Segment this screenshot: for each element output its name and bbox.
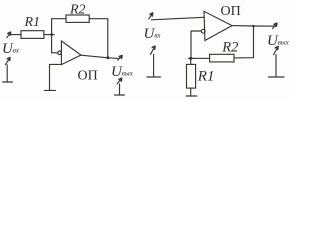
ground bar (left input) xyxy=(3,81,13,83)
output terminal arrow (left circuit, Uвых terminal) xyxy=(118,56,122,61)
junction output node (left circuit) xyxy=(106,56,109,59)
voltage arrow (right input reference) xyxy=(151,46,156,54)
wire input to R1 xyxy=(10,34,22,36)
ground bar (op-amp 1 non-inverting input) xyxy=(45,89,56,91)
op-amp U2 triangle xyxy=(204,11,232,40)
wire summing node to inverting input xyxy=(52,35,58,53)
wire feedback up to R2 xyxy=(52,19,66,35)
svg-text:Uвх: Uвх xyxy=(2,41,20,57)
resistor R1 (left circuit) xyxy=(21,31,44,39)
svg-text:R2: R2 xyxy=(221,40,238,56)
wire op-amp 2 output xyxy=(232,25,276,28)
ground bar (right circuit R1) xyxy=(186,95,197,97)
voltage arrow (right output reference) xyxy=(274,47,278,55)
svg-text:ОП: ОП xyxy=(221,4,241,19)
junction output tap (right circuit) xyxy=(252,25,254,27)
svg-text:Uвых: Uвых xyxy=(111,64,134,80)
ground stem (left input) xyxy=(6,65,8,82)
svg-text:R1: R1 xyxy=(197,69,215,85)
ground bar (left output) xyxy=(115,94,125,96)
wire R2 to output tap xyxy=(234,26,254,58)
wire R2 to output node xyxy=(89,19,108,58)
ground stem (left output) xyxy=(119,84,121,95)
wire op-amp output xyxy=(81,55,118,58)
wire non-inverting input to ground xyxy=(50,64,62,90)
output terminal arrow (right circuit, Uвых terminal) xyxy=(273,23,277,28)
voltage arrow (left input reference) xyxy=(5,58,10,65)
voltage arrow (left output reference) xyxy=(117,78,122,84)
ground stem (right output) xyxy=(275,55,277,77)
wire feedback node to R2 xyxy=(188,57,209,59)
input terminal arrow (left circuit, Uвх terminal) xyxy=(7,32,11,38)
ground stem (right input) xyxy=(153,54,155,77)
resistor R2 (left circuit) xyxy=(66,15,89,22)
wire inverting input to feedback node xyxy=(191,31,201,58)
svg-text:Uвх: Uвх xyxy=(144,26,162,42)
ground bar (right output) xyxy=(269,76,285,78)
ground stem (right circuit R1) xyxy=(190,88,192,96)
resistor R1 (right circuit, vertical) xyxy=(187,64,196,88)
inverting input circle (op-amp 2) xyxy=(201,29,205,33)
op-amp U1 triangle xyxy=(61,41,81,65)
inverting input circle (op-amp 1) xyxy=(58,51,62,55)
junction feedback node (right circuit) xyxy=(189,57,192,60)
resistor R2 (right circuit) xyxy=(210,54,234,62)
input terminal arrow (right circuit, Uвх terminal) xyxy=(149,13,153,19)
wire input to non-inverting input (right circuit) xyxy=(152,17,205,20)
svg-text:ОП: ОП xyxy=(78,69,98,84)
svg-text:R2: R2 xyxy=(69,3,86,18)
ground bar (right input) xyxy=(147,76,161,78)
stem feedback node to R1 (right circuit) xyxy=(190,58,192,64)
wire R1 to summing node xyxy=(44,34,54,36)
svg-text:R1: R1 xyxy=(24,15,41,30)
junction summing node xyxy=(50,33,53,36)
